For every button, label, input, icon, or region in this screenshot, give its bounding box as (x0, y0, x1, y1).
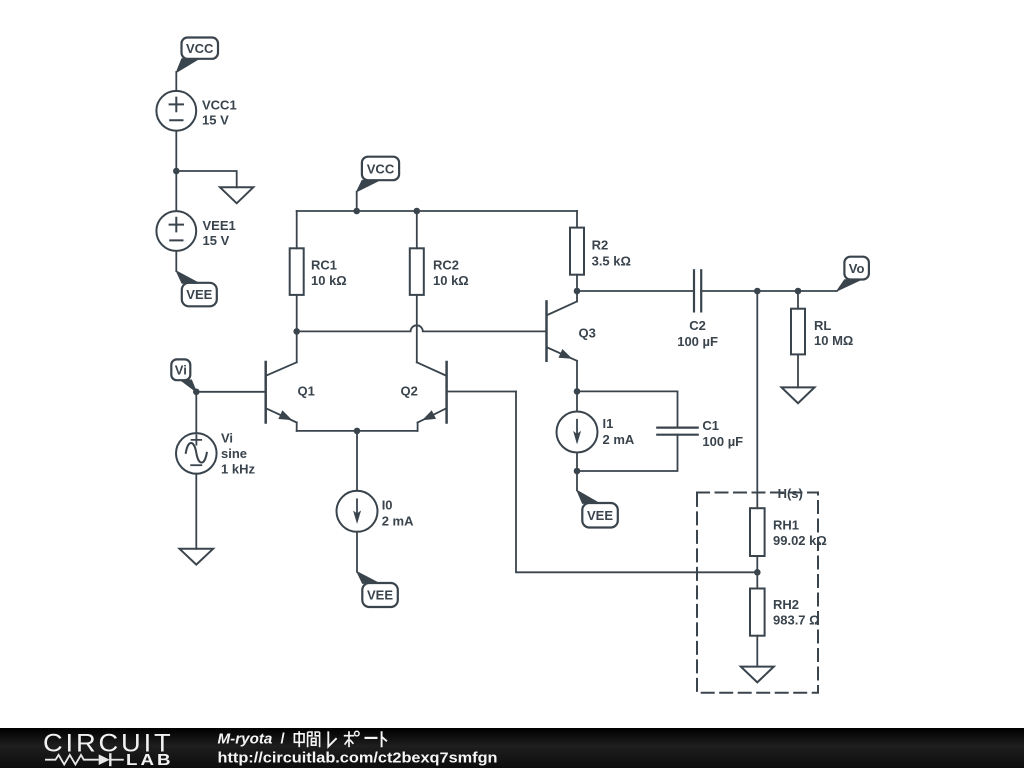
node Vi (193, 389, 200, 396)
svg-text:C1: C1 (702, 418, 719, 433)
transistor Q2 (401, 362, 447, 425)
svg-text:100 µF: 100 µF (677, 334, 718, 349)
node Q3 emitter (574, 388, 581, 395)
footer title katakana to (ト) (382, 731, 387, 747)
flag VCC (rail) (357, 157, 399, 192)
svg-text:2 mA: 2 mA (382, 514, 414, 529)
logo diode (99, 754, 123, 765)
footer title kanji naka (中) (294, 731, 304, 747)
node R2 / Q3 collector (574, 288, 581, 295)
capacitor C1 (657, 418, 743, 449)
wire Q1 emitter down (296, 423, 298, 431)
svg-text:100 µF: 100 µF (702, 434, 743, 449)
capacitor C2 (677, 270, 718, 349)
wire rail to R2 (576, 211, 578, 228)
footer title katakana po (ポ) (344, 731, 359, 747)
svg-text:http://circuitlab.com/ct2bexq7: http://circuitlab.com/ct2bexq7smfgn (218, 750, 498, 767)
wire C2 to Vo (701, 290, 837, 292)
wire H(s) tap down to RH1 (756, 291, 758, 508)
svg-text:RH2: RH2 (773, 597, 799, 612)
svg-text:Vo: Vo (849, 261, 865, 276)
flag Vi (171, 359, 196, 391)
svg-text:RC1: RC1 (311, 258, 337, 273)
wire Q1 collector vertical (296, 331, 298, 362)
transistor Q3 (547, 301, 596, 363)
svg-text:Q3: Q3 (579, 326, 596, 341)
wire VCC flag to VCC1 (175, 72, 177, 91)
flag VEE (below VEE1) (176, 271, 217, 306)
wire RL to ground (797, 354, 799, 387)
wire C1 bottom branch (577, 435, 678, 471)
resistor RC2 (410, 248, 469, 295)
svg-text:Q1: Q1 (298, 383, 315, 398)
svg-text:C2: C2 (689, 318, 706, 333)
svg-text:VCC: VCC (367, 161, 395, 176)
wire Q3 emitter down (576, 361, 578, 392)
resistor RL (791, 309, 853, 355)
wire node to ground stub (176, 171, 236, 187)
wire VEE1 to VEE flag (175, 251, 177, 271)
wire RC2 to Q2 collector (416, 295, 418, 362)
wire output node to C2 (577, 290, 694, 292)
wire Q2 emitter down (417, 423, 419, 431)
logo resistor zigzag (45, 755, 99, 765)
svg-text:M-ryota: M-ryota (218, 731, 273, 748)
svg-text:I0: I0 (382, 497, 393, 512)
svg-text:R2: R2 (592, 237, 609, 252)
svg-text:VEE: VEE (367, 588, 393, 603)
svg-text:15 V: 15 V (203, 233, 230, 248)
wire RH1 to mid node (756, 556, 758, 589)
wire emitters node to I0 (356, 431, 358, 491)
svg-text:983.7 Ω: 983.7 Ω (773, 612, 820, 627)
node rail at VCC flag (353, 208, 360, 215)
wire rail to RC2 (416, 211, 418, 248)
svg-text:LAB: LAB (126, 752, 174, 768)
svg-text:sine: sine (221, 446, 247, 461)
resistor RH2 (750, 589, 820, 636)
svg-text:VEE: VEE (587, 508, 613, 523)
ground (RL) (782, 387, 815, 403)
node RH divider (754, 569, 761, 576)
wire emitters join (297, 430, 418, 432)
svg-text:2 mA: 2 mA (603, 432, 635, 447)
voltage source VCC1 (156, 91, 236, 131)
svg-text:99.02 kΩ: 99.02 kΩ (773, 533, 827, 548)
wire R2 to output node (576, 275, 578, 291)
wire VCC flag to rail (356, 192, 358, 211)
wire emitter node to I1 (576, 391, 578, 411)
svg-text:VEE1: VEE1 (203, 218, 236, 233)
svg-text:RC2: RC2 (433, 258, 459, 273)
wire C1 top branch (577, 391, 678, 427)
svg-text:Vi: Vi (221, 430, 233, 445)
node RL tap (795, 288, 802, 295)
wire Q2 base (447, 391, 516, 393)
svg-text:RH1: RH1 (773, 517, 799, 532)
footer title dash (ー) (365, 737, 378, 739)
wire Vi node down to source (195, 392, 197, 433)
ground (power rail) (220, 187, 253, 203)
wire node to VEE flag (I1) (576, 471, 578, 490)
svg-text:Vi: Vi (175, 363, 187, 378)
svg-text:15 V: 15 V (202, 112, 229, 127)
wire RH2 to ground (756, 636, 758, 667)
resistor RH1 (750, 508, 827, 556)
svg-text:10 MΩ: 10 MΩ (814, 333, 853, 348)
wire feedback from Q2 base to divider (516, 392, 757, 573)
svg-text:Q2: Q2 (401, 383, 418, 398)
resistor R2 (570, 228, 631, 275)
flag Vo (837, 257, 869, 291)
node between VCC1 and VEE1 (173, 168, 180, 175)
svg-text:VEE: VEE (186, 287, 212, 302)
flag VEE (below I1) (577, 490, 618, 527)
current source I0 (337, 491, 415, 532)
flag VCC (top left) (176, 38, 218, 73)
wire RL tap down (797, 291, 799, 309)
svg-text:VCC1: VCC1 (202, 97, 237, 112)
wire I0 to VEE flag (356, 532, 358, 572)
svg-text:10 kΩ: 10 kΩ (311, 273, 347, 288)
footer title kanji aida (間) (308, 732, 320, 747)
svg-text:10 kΩ: 10 kΩ (433, 273, 469, 288)
svg-text:I1: I1 (603, 416, 614, 431)
flag VEE (below I0) (357, 572, 398, 607)
wire RC1 to collector node (296, 295, 298, 332)
resistor RC1 (290, 248, 347, 295)
node emitters (354, 428, 361, 435)
transistor Q1 (266, 362, 315, 424)
current source I1 (557, 412, 635, 453)
ground (H(s)) (741, 667, 774, 683)
svg-text:3.5 kΩ: 3.5 kΩ (592, 253, 631, 268)
node H(s) tap (754, 288, 761, 295)
node Q1 collector (293, 328, 300, 335)
wire Vi to Q1 base (196, 391, 265, 393)
wire Q1 collector node to Q3 base (hop over RC2 wire) (297, 325, 547, 331)
node I1 bottom (574, 468, 581, 475)
H(s) dashed box (697, 493, 818, 693)
wire I1 to lower node (576, 453, 578, 472)
svg-text:H(s): H(s) (778, 486, 803, 501)
svg-text:1 kHz: 1 kHz (221, 462, 255, 477)
footer bar (0, 728, 1024, 768)
wire Vi source to ground (195, 474, 197, 549)
wire Q3 collector vertical (576, 291, 578, 301)
wire VCC rail (297, 210, 577, 212)
node rail at RC2 (414, 208, 421, 215)
footer title katakana re (レ) (328, 731, 336, 746)
wire node to VEE1 (175, 171, 177, 211)
voltage source VEE1 (156, 211, 235, 251)
wire VCC1 to node (175, 131, 177, 171)
wire rail to RC1 (296, 211, 298, 248)
ground (Vi) (180, 549, 214, 565)
voltage source Vi (sine) (176, 430, 255, 476)
svg-text:VCC: VCC (186, 41, 214, 56)
svg-text:RL: RL (814, 318, 831, 333)
